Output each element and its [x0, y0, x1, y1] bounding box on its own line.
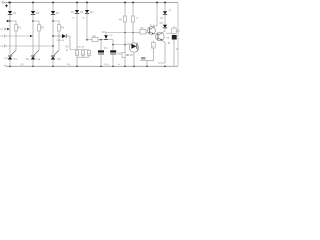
wire: [146, 32, 150, 34]
wire: [173, 27, 175, 67]
diode D5: [85, 10, 89, 13]
right frame wire: [177, 3, 179, 67]
battery B1: [172, 35, 177, 40]
node dots bottom rail: [9, 66, 166, 68]
thyristor Th3: [51, 55, 55, 57]
wire: [32, 3, 34, 12]
diode D3: [51, 11, 55, 14]
svg-text:R2: R2: [41, 27, 45, 30]
wire: [52, 14, 54, 56]
svg-text:L1: L1: [0, 27, 3, 31]
svg-text:D8: D8: [160, 22, 164, 25]
svg-text:R3: R3: [61, 27, 65, 30]
wire: [52, 59, 54, 66]
node dots top rail: [9, 2, 166, 4]
wire emitter Q2 down: [162, 40, 165, 63]
svg-text:D7: D7: [160, 17, 164, 20]
wire: [132, 3, 134, 17]
wire L2: [5, 35, 33, 37]
wire collector Q2: [162, 28, 165, 33]
wire: [87, 39, 92, 41]
svg-text:470u: 470u: [104, 64, 110, 66]
svg-text:22n: 22n: [67, 64, 71, 66]
svg-text:D5: D5: [80, 11, 84, 14]
svg-text:1N4148: 1N4148: [76, 47, 84, 49]
wire: [86, 3, 88, 11]
wire: [106, 32, 133, 34]
resistor R8: [88, 50, 91, 55]
wire: [124, 22, 126, 52]
node: [132, 32, 134, 34]
wire: [124, 58, 126, 67]
terminal plus output: [2, 2, 4, 4]
thyristor Th2: [31, 55, 35, 57]
wire L3: [5, 45, 53, 47]
capacitor C2: [110, 50, 116, 52]
diode D1: [8, 11, 12, 14]
node L3-phase3: [52, 45, 54, 47]
svg-text:1N: 1N: [72, 18, 75, 20]
svg-text:1k: 1k: [136, 18, 139, 20]
wire: [76, 3, 78, 11]
wire: [76, 13, 78, 49]
node: [100, 39, 102, 41]
wire: [113, 44, 130, 46]
wire: [9, 14, 11, 56]
svg-text:4k7: 4k7: [119, 19, 123, 21]
svg-text:R1: R1: [18, 27, 22, 30]
wire: [70, 49, 89, 51]
wire: [32, 59, 34, 66]
wire emitter Q1 to Q2 base: [153, 33, 158, 35]
wire L1: [5, 28, 9, 30]
svg-text:Th3: Th3: [57, 59, 62, 61]
svg-text:1A: 1A: [176, 48, 179, 51]
svg-text:1k: 1k: [118, 64, 121, 66]
svg-text:-: -: [2, 63, 3, 67]
zener ZD1: [105, 33, 107, 36]
wire: [77, 55, 89, 66]
wire gate branch 2: [33, 21, 39, 50]
resistor R4: [92, 38, 98, 42]
wire: [132, 22, 134, 43]
svg-text:Th2: Th2: [25, 59, 30, 61]
wire: [66, 36, 70, 50]
wire: [164, 3, 166, 12]
svg-text:1N4148: 1N4148: [56, 40, 64, 42]
resistor R13: [151, 43, 155, 48]
wire collector Q1: [153, 3, 157, 28]
wire bottom rail: [6, 65, 178, 67]
svg-text:Th1: Th1: [13, 59, 18, 61]
svg-text:1N: 1N: [82, 18, 85, 20]
gate wire Th1: [11, 50, 16, 55]
node: [86, 39, 88, 41]
diode D9: [163, 25, 167, 28]
svg-text:R7: R7: [177, 31, 180, 33]
svg-text:R9: R9: [66, 46, 70, 48]
resistor R2: [38, 25, 41, 31]
svg-text:D1: D1: [13, 12, 17, 15]
shunt box: [141, 57, 146, 60]
capacitor C1: [100, 40, 102, 51]
svg-text:D4: D4: [71, 11, 75, 14]
thyristor U1: [129, 43, 138, 52]
wire: [86, 13, 88, 39]
svg-text:12V: 12V: [109, 35, 113, 37]
resistor R6: [76, 50, 79, 55]
node: [124, 44, 126, 46]
wire: [152, 41, 154, 43]
svg-text:B1: B1: [169, 10, 172, 12]
wire: [32, 14, 34, 56]
resistor R3: [58, 25, 61, 31]
wire link: [166, 32, 172, 34]
wire: [124, 3, 126, 17]
wire gate branch 1: [10, 21, 16, 50]
svg-text:T2: T2: [166, 37, 170, 40]
resistor R7: [82, 50, 85, 55]
wire stub: [158, 62, 165, 64]
node tap phase3: [52, 20, 54, 22]
resistor R10: [122, 52, 125, 57]
wire stub arrow: [6, 20, 10, 22]
gate wire Th2: [34, 50, 39, 55]
svg-text:25A: 25A: [4, 57, 8, 60]
wire gate branch 3: [53, 21, 59, 50]
svg-text:Bt: Bt: [168, 42, 171, 45]
svg-text:0V: 0V: [21, 64, 24, 66]
wire: [9, 3, 11, 12]
wire: [52, 3, 54, 12]
diode D2: [31, 11, 35, 14]
node tap phase2: [32, 20, 34, 22]
node: [112, 44, 114, 46]
gate wire Th3: [54, 50, 59, 55]
svg-text:1k: 1k: [66, 50, 69, 52]
svg-text:D3: D3: [56, 12, 60, 15]
svg-text:25A: 25A: [36, 58, 40, 61]
plus label: [5, 4, 8, 7]
wire below U1: [133, 52, 135, 66]
diode D4: [75, 10, 79, 13]
svg-text:BT151: BT151: [127, 55, 134, 57]
wire corner: [112, 40, 114, 51]
svg-text:D2: D2: [36, 12, 40, 15]
resistor R12: [133, 32, 140, 34]
diode D8: [163, 11, 167, 14]
svg-text:L2: L2: [0, 34, 3, 38]
wire top rail: [4, 2, 178, 4]
resistor R5: [123, 16, 126, 22]
transistor Q1: [148, 27, 156, 35]
svg-text:D6: D6: [90, 11, 94, 14]
svg-text:47u: 47u: [104, 48, 109, 50]
diode D7: [62, 34, 66, 38]
node tap phase1: [9, 20, 11, 22]
wire: [141, 48, 154, 66]
thyristor Th1: [8, 55, 12, 57]
node: [124, 32, 126, 34]
wire: [98, 39, 113, 41]
resistor R14: [172, 28, 176, 34]
transistor Q2: [156, 32, 165, 41]
svg-text:L3: L3: [0, 44, 3, 48]
resistor R1: [15, 25, 18, 31]
wire: [53, 35, 62, 37]
wire: [9, 59, 11, 66]
wire: [164, 14, 166, 24]
resistor R11: [131, 16, 134, 22]
arrow on top rail: [9, 1, 11, 3]
